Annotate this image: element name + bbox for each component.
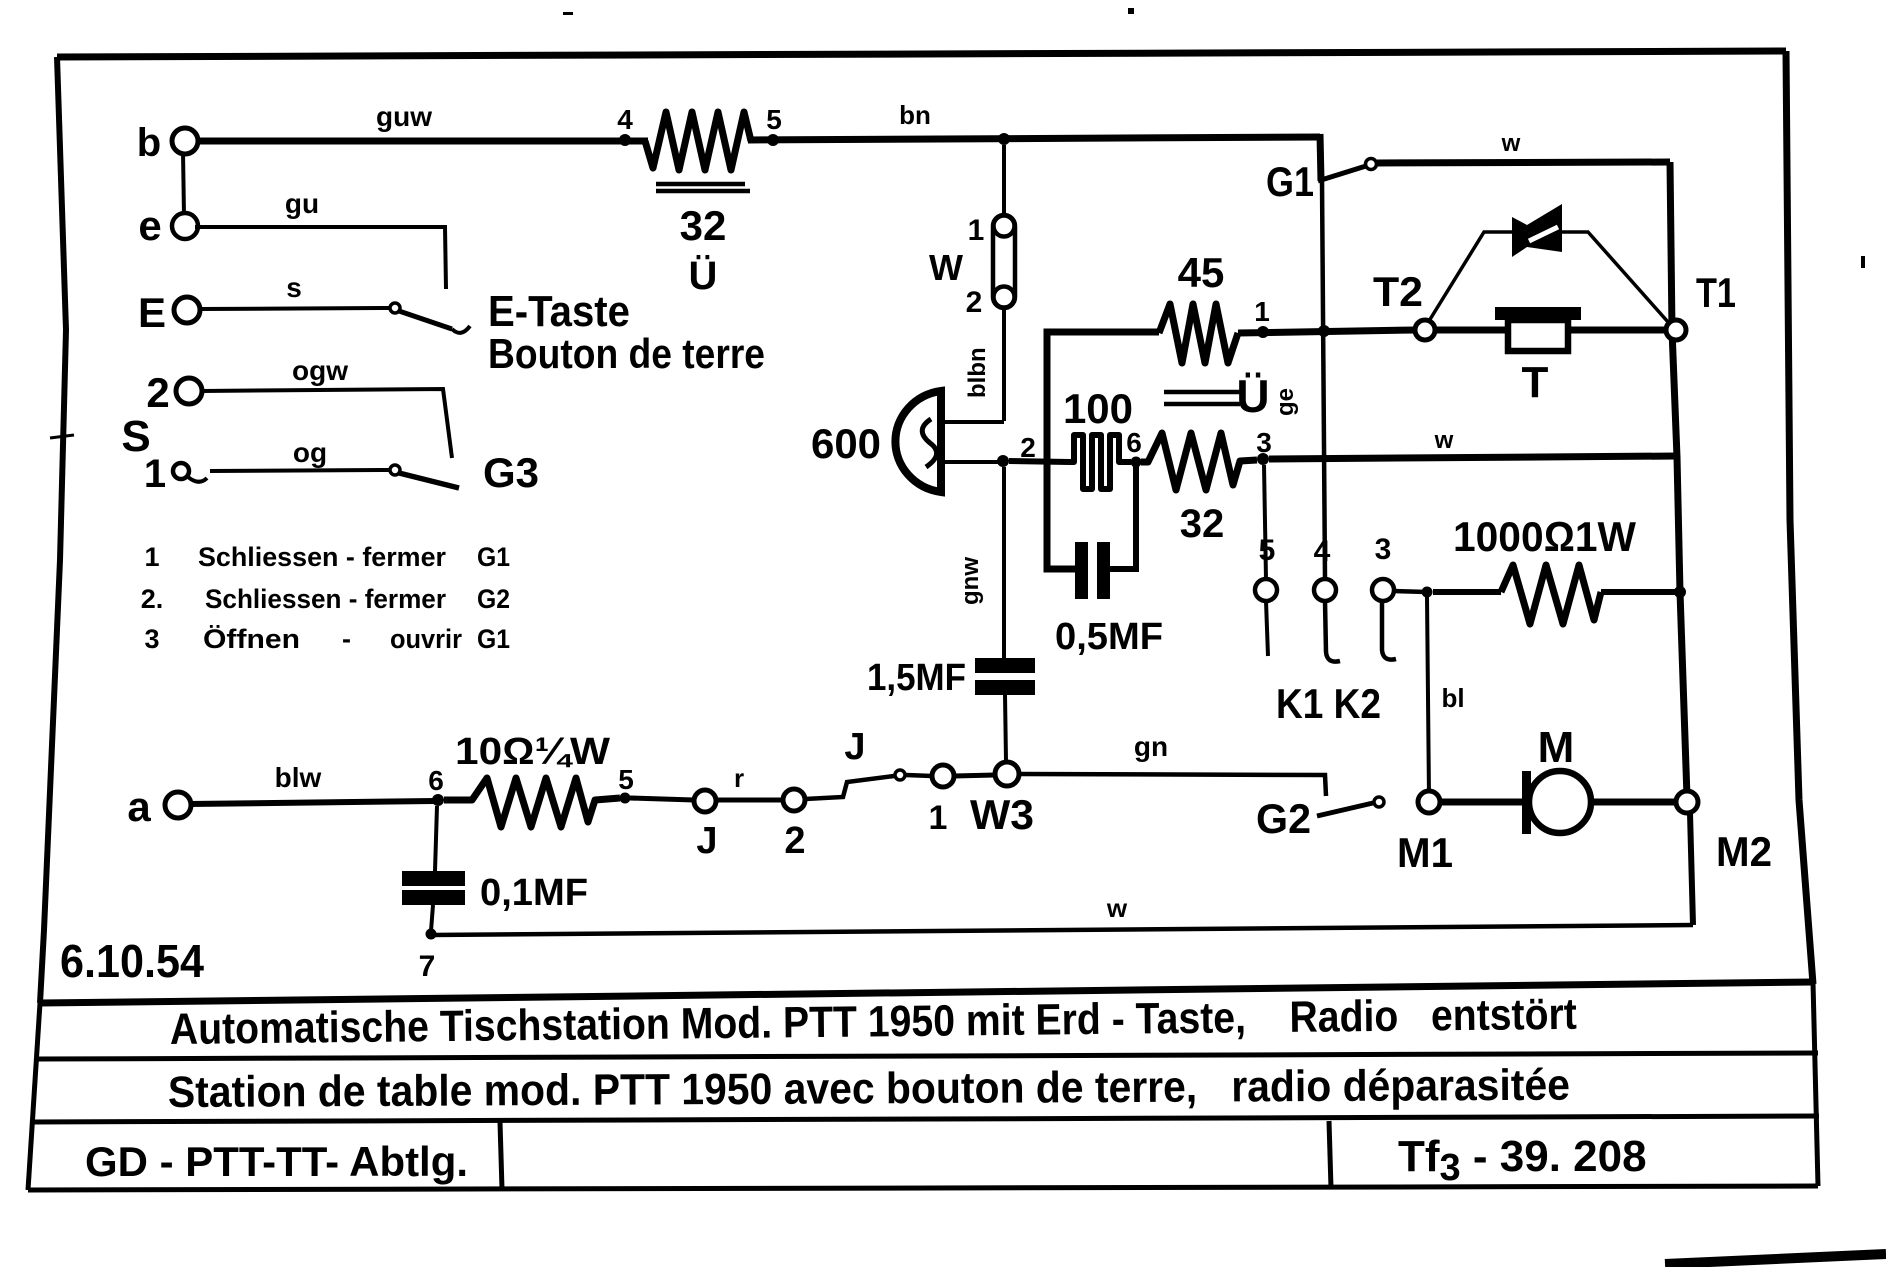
capacitor 0.5MF plates: [1075, 542, 1088, 599]
svg-text:1: 1: [144, 542, 159, 572]
svg-text:E-Taste: E-Taste: [488, 287, 630, 336]
svg-text:45: 45: [1178, 249, 1225, 296]
pin 3 lower lead: [1382, 601, 1396, 660]
svg-text:3: 3: [144, 624, 159, 654]
svg-text:4: 4: [617, 104, 633, 135]
wire node2 to heat coil: [1009, 461, 1070, 462]
svg-text:600: 600: [811, 420, 881, 467]
svg-text:4: 4: [1314, 535, 1331, 568]
capacitor 1.5MF plates: [975, 658, 1035, 673]
resistor 10 ohm 1/4W: [444, 778, 620, 827]
junction dot blbn: [998, 133, 1010, 145]
receiver T cap bar: [1495, 307, 1581, 320]
receiver 600 ohm (earpiece): [895, 391, 941, 492]
wire S1 (og): [210, 470, 390, 471]
svg-text:w: w: [1434, 427, 1454, 454]
svg-text:Schliessen - fermer: Schliessen - fermer: [205, 584, 446, 614]
svg-text:0,1MF: 0,1MF: [480, 872, 588, 914]
svg-text:s: s: [286, 272, 302, 303]
capacitor 0.1MF lead: [435, 806, 437, 871]
svg-text:6: 6: [1126, 427, 1142, 458]
svg-text:blbn: blbn: [964, 347, 991, 398]
svg-text:Bouton de terre: Bouton de terre: [488, 330, 765, 377]
svg-text:6.10.54: 6.10.54: [60, 935, 204, 987]
node W3: [995, 762, 1019, 786]
svg-text:e: e: [138, 202, 161, 249]
svg-text:3: 3: [1375, 533, 1392, 566]
svg-text:W: W: [929, 247, 963, 288]
title block bottom line: [28, 1186, 1818, 1190]
svg-text:a: a: [127, 783, 151, 830]
title block top line: [40, 982, 1813, 1003]
node 5: [767, 134, 779, 146]
resistor 45: [1159, 304, 1238, 363]
junction dot G1 column: [1318, 325, 1330, 337]
svg-text:ge: ge: [1272, 388, 1299, 416]
svg-text:G1: G1: [477, 542, 510, 572]
svg-text:1000Ω1W: 1000Ω1W: [1453, 513, 1636, 560]
svg-text:T1: T1: [1696, 269, 1736, 316]
svg-text:Station de table mod. PTT 195: Station de table mod. PTT 1950 avec bout…: [168, 1061, 1570, 1117]
receiver top lead: [944, 420, 1004, 424]
wire contact1 to W3: [954, 775, 995, 776]
svg-text:Schliessen - fermer: Schliessen - fermer: [198, 542, 446, 572]
ringer thin wire: [1429, 232, 1668, 322]
border right: [1786, 51, 1813, 984]
svg-text:2.: 2.: [141, 584, 164, 614]
junction 1000ohm right: [1674, 586, 1686, 598]
hook switch contact W (capsule): [993, 215, 1015, 308]
switch G2 blade: [1317, 803, 1373, 816]
svg-text:2: 2: [146, 369, 169, 416]
svg-text:100: 100: [1063, 385, 1133, 432]
wire blbn lower: [1002, 308, 1006, 421]
svg-text:1: 1: [144, 452, 166, 496]
terminal E: [174, 297, 200, 323]
wire E (s): [199, 308, 390, 309]
svg-text:J: J: [844, 726, 865, 768]
svg-text:GD - PTT-TT- Abtlg.: GD - PTT-TT- Abtlg.: [85, 1138, 468, 1185]
wire gnw down to 1.5MF: [1002, 467, 1006, 658]
wire M1 to motor: [1440, 799, 1528, 806]
node T1: [1666, 320, 1686, 340]
node 6: [1131, 457, 1142, 468]
heat coil 100 (meander): [1070, 435, 1131, 489]
svg-text:bn: bn: [899, 100, 931, 130]
capacitor 1.5MF lower lead: [1005, 695, 1006, 761]
svg-text:G2: G2: [477, 584, 510, 614]
title block divider 2: [1329, 1121, 1331, 1188]
wire blw: [189, 801, 434, 804]
ringer (buzzer) symbol: [1512, 217, 1527, 257]
junction bl: [1422, 587, 1433, 598]
branch 45 top wire: [1047, 332, 1159, 569]
node 2 (speaker output): [997, 455, 1009, 467]
svg-text:0,5MF: 0,5MF: [1055, 616, 1163, 658]
wire bl down: [1427, 597, 1429, 797]
svg-text:1: 1: [929, 799, 948, 837]
receiver bottom lead: [944, 460, 1000, 464]
svg-text:ogw: ogw: [292, 355, 348, 386]
wire bn corner down: [1320, 134, 1321, 181]
node 4: [619, 134, 631, 146]
wire node1 to T2: [1238, 330, 1415, 333]
resistor 32 (middle): [1141, 433, 1257, 490]
wire motor to M2: [1591, 799, 1676, 806]
G3 contact pivot: [390, 465, 400, 475]
svg-text:6: 6: [428, 765, 444, 796]
G1 contact tip: [1366, 159, 1377, 170]
svg-text:M2: M2: [1716, 828, 1772, 875]
wire b to node 4 (guw): [196, 138, 648, 145]
title block right edge: [1813, 982, 1818, 1186]
wire S2 (ogw): [201, 389, 452, 458]
title block line 3: [32, 1116, 1819, 1122]
terminal b: [172, 128, 198, 154]
G3 blade: [399, 473, 459, 488]
J blade tip: [895, 770, 905, 780]
svg-text:2: 2: [784, 820, 805, 862]
svg-text:blw: blw: [275, 762, 322, 793]
capacitor 0.1MF lower lead: [431, 905, 433, 931]
svg-text:G2: G2: [1256, 795, 1311, 842]
scan speck 1: [1128, 8, 1134, 14]
terminal S1: [173, 463, 189, 479]
wire gn: [1019, 774, 1326, 796]
G2 contact tip: [1374, 797, 1384, 807]
svg-text:w: w: [1501, 130, 1521, 157]
E-Taste blade: [399, 311, 452, 329]
svg-text:7: 7: [419, 950, 436, 983]
wire M2 down: [1690, 813, 1693, 925]
svg-text:32: 32: [1180, 502, 1225, 546]
title block left edge: [28, 1003, 40, 1190]
resistor 1000 ohm 1W leads: [1433, 589, 1501, 595]
terminal e: [172, 213, 198, 239]
contact pin 5: [1255, 579, 1277, 601]
contact pin 3: [1372, 579, 1394, 601]
wire r: [630, 798, 694, 800]
node 5 (a-branch): [620, 793, 631, 804]
svg-text:5: 5: [618, 764, 634, 795]
svg-text:1,5MF: 1,5MF: [867, 657, 966, 699]
wire e (gu): [195, 227, 446, 289]
pin 5 lead: [1264, 465, 1266, 579]
switch G1 blade: [1318, 166, 1366, 181]
node 1: [1257, 326, 1269, 338]
E-Taste contact pivot: [390, 303, 400, 313]
pin 4 lower lead: [1325, 601, 1340, 662]
svg-text:M: M: [1538, 723, 1575, 772]
svg-text:G1: G1: [1266, 158, 1314, 205]
resistor 1000 ohm 1W: [1501, 565, 1601, 624]
node 3: [1257, 453, 1269, 465]
svg-text:2: 2: [966, 286, 983, 319]
svg-text:Ü: Ü: [689, 253, 718, 298]
transformer core Ü (middle): [1164, 390, 1240, 395]
pin 5 lower lead: [1266, 601, 1268, 656]
pin 3 wire to bl: [1394, 591, 1427, 592]
svg-text:G3: G3: [483, 449, 539, 496]
node T2: [1415, 320, 1435, 340]
node 7: [426, 929, 437, 940]
svg-text:bl: bl: [1441, 683, 1464, 713]
svg-text:-: -: [342, 624, 351, 654]
title block line 2: [36, 1053, 1818, 1059]
border top: [57, 51, 1786, 57]
svg-text:5: 5: [1259, 534, 1276, 567]
scan speck 3: [1861, 256, 1865, 268]
node M2: [1676, 791, 1698, 813]
svg-text:10Ω¼W: 10Ω¼W: [455, 731, 610, 773]
wire to contact 1: [906, 775, 932, 776]
svg-text:1: 1: [1254, 296, 1270, 327]
svg-text:5: 5: [766, 104, 782, 135]
contact 1 (W3): [932, 765, 954, 787]
capacitor 0.1MF plates: [402, 871, 465, 886]
contact 2: [783, 789, 805, 811]
svg-text:T: T: [1522, 358, 1549, 407]
border left: [40, 57, 66, 1003]
svg-text:E: E: [138, 289, 166, 336]
terminal S2: [176, 378, 202, 404]
svg-text:b: b: [137, 121, 161, 165]
terminal a: [165, 792, 191, 818]
wire w (middle) to T1 column: [1269, 456, 1677, 459]
receiver T body: [1508, 320, 1568, 351]
svg-text:og: og: [293, 437, 327, 468]
wire w (top): [1377, 162, 1670, 163]
wire right column T1: [1670, 162, 1687, 797]
svg-text:M1: M1: [1397, 829, 1453, 876]
border tick: [50, 435, 74, 438]
svg-text:K1 K2: K1 K2: [1276, 680, 1381, 727]
contact J left: [694, 790, 716, 812]
wire link b-e: [183, 152, 184, 216]
svg-text:G1: G1: [477, 624, 510, 654]
node M1: [1418, 791, 1440, 813]
svg-text:guw: guw: [376, 101, 432, 132]
svg-text:J: J: [696, 820, 717, 862]
wire T2 to T1: [1435, 327, 1666, 334]
scan bar bottom right: [1665, 1254, 1886, 1264]
title block divider 1: [500, 1122, 502, 1189]
wire blbn upper: [1002, 145, 1006, 216]
svg-text:gn: gn: [1134, 731, 1168, 762]
svg-text:Tf3 - 39. 208: Tf3 - 39. 208: [1398, 1132, 1647, 1189]
svg-text:ouvrir: ouvrir: [390, 624, 462, 654]
capacitor 0.5MF right lead: [1110, 466, 1136, 569]
transformer core Ü (top): [656, 182, 745, 187]
wire J-2: [716, 798, 783, 803]
motor M: [1529, 771, 1591, 833]
svg-text:W3: W3: [970, 791, 1034, 838]
motor M brush bar: [1522, 771, 1531, 834]
svg-text:1: 1: [968, 214, 985, 247]
node 6 (a-branch): [432, 794, 444, 806]
wire w (bottom): [431, 925, 1693, 935]
wire G1 column down to K2 pin 4: [1322, 181, 1325, 579]
switch J blade: [805, 776, 894, 799]
svg-text:Ü: Ü: [1236, 370, 1269, 422]
svg-text:w: w: [1106, 893, 1128, 923]
svg-text:3: 3: [1256, 427, 1272, 458]
svg-text:T2: T2: [1373, 268, 1423, 315]
svg-text:32: 32: [680, 202, 727, 249]
svg-text:gnw: gnw: [957, 557, 984, 605]
svg-text:Öffnen: Öffnen: [203, 624, 300, 654]
contact pin 4: [1314, 579, 1336, 601]
svg-text:gu: gu: [285, 188, 319, 219]
svg-text:r: r: [734, 763, 744, 793]
scan speck 2: [563, 12, 573, 15]
resistor 32 (line transformer winding): [645, 112, 751, 170]
wire node5 to corner (bn): [748, 137, 1320, 140]
